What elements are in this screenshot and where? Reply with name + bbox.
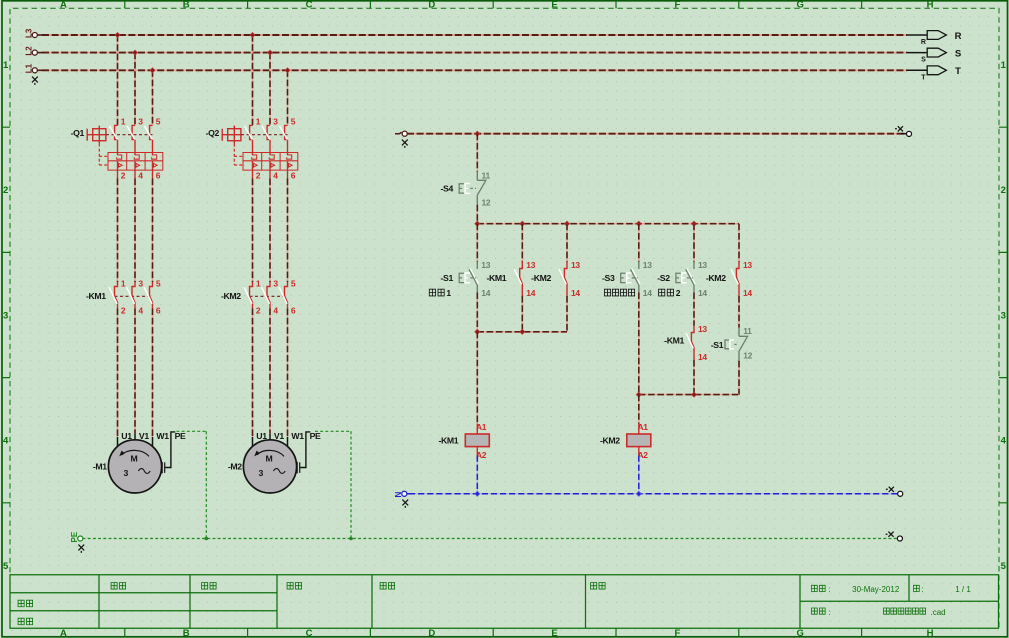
svg-text:14: 14 — [481, 288, 490, 298]
svg-text:6: 6 — [156, 170, 161, 180]
svg-text:13: 13 — [481, 260, 490, 270]
svg-text:4: 4 — [138, 170, 143, 180]
svg-text:T: T — [955, 66, 961, 77]
svg-text:-S1: -S1 — [441, 273, 454, 283]
svg-text:F: F — [674, 0, 680, 10]
svg-text:H: H — [927, 628, 934, 638]
svg-text:1: 1 — [256, 116, 261, 126]
svg-text:13: 13 — [526, 260, 535, 270]
svg-text::: : — [829, 608, 831, 617]
svg-text:W1: W1 — [291, 431, 304, 441]
svg-text:2: 2 — [121, 170, 126, 180]
svg-text:2: 2 — [676, 288, 681, 298]
svg-text:5: 5 — [156, 278, 161, 288]
svg-text:3: 3 — [123, 468, 128, 478]
svg-text:3: 3 — [138, 278, 143, 288]
svg-text:11: 11 — [482, 170, 491, 180]
svg-text:PE: PE — [175, 431, 186, 441]
svg-text:-S2: -S2 — [657, 273, 670, 283]
svg-text:11: 11 — [743, 326, 752, 336]
svg-text:4: 4 — [138, 306, 143, 316]
svg-text:-KM2: -KM2 — [531, 273, 551, 283]
svg-text:14: 14 — [571, 288, 580, 298]
svg-text:PE: PE — [70, 531, 79, 542]
svg-text:14: 14 — [743, 288, 752, 298]
svg-text:3: 3 — [1001, 310, 1006, 321]
svg-text:1 / 1: 1 / 1 — [955, 585, 971, 594]
svg-text:14: 14 — [698, 352, 707, 362]
svg-text:-M1: -M1 — [93, 462, 107, 472]
svg-text:4: 4 — [3, 436, 9, 447]
svg-text:5: 5 — [291, 278, 296, 288]
svg-text:3: 3 — [273, 116, 278, 126]
svg-text:5: 5 — [1001, 561, 1007, 572]
svg-text:PE: PE — [310, 431, 321, 441]
svg-text:13: 13 — [571, 260, 580, 270]
svg-text:12: 12 — [482, 198, 491, 208]
svg-text:-Q1: -Q1 — [71, 128, 85, 138]
svg-text:-KM1: -KM1 — [486, 273, 506, 283]
svg-text:3: 3 — [138, 116, 143, 126]
svg-text:A1: A1 — [637, 422, 648, 432]
svg-text:-KM1: -KM1 — [664, 336, 684, 346]
svg-text:5: 5 — [156, 116, 161, 126]
svg-text:D: D — [428, 628, 435, 638]
svg-text:-S4: -S4 — [441, 183, 454, 193]
svg-text:-KM2: -KM2 — [600, 435, 620, 445]
svg-text:30-May-2012: 30-May-2012 — [852, 585, 900, 594]
svg-text:4: 4 — [1001, 436, 1007, 447]
svg-text:6: 6 — [291, 306, 296, 316]
svg-text:13: 13 — [743, 260, 752, 270]
svg-text:N: N — [394, 492, 403, 498]
svg-text:B: B — [183, 628, 190, 638]
svg-text:U1: U1 — [256, 431, 267, 441]
svg-text:1: 1 — [3, 60, 9, 71]
svg-text:-KM2: -KM2 — [221, 291, 241, 301]
svg-text:13: 13 — [698, 260, 707, 270]
svg-text:3: 3 — [3, 310, 8, 321]
svg-text:-KM2: -KM2 — [706, 273, 726, 283]
svg-text:13: 13 — [643, 260, 652, 270]
svg-text:A: A — [60, 0, 67, 10]
svg-text:1: 1 — [121, 116, 126, 126]
svg-text:E: E — [551, 628, 557, 638]
svg-text:2: 2 — [121, 306, 126, 316]
svg-text:3: 3 — [273, 278, 278, 288]
svg-text:1: 1 — [121, 278, 126, 288]
svg-text:2: 2 — [256, 306, 261, 316]
svg-text:-Q2: -Q2 — [206, 128, 220, 138]
svg-text:U1: U1 — [121, 431, 132, 441]
svg-text:1: 1 — [256, 278, 261, 288]
svg-text:E: E — [551, 0, 557, 10]
svg-text:A: A — [60, 628, 67, 638]
svg-text:F: F — [674, 628, 680, 638]
svg-text:R: R — [955, 31, 962, 42]
svg-text:2: 2 — [3, 185, 8, 196]
svg-text:M: M — [131, 453, 138, 463]
svg-text:G: G — [797, 628, 804, 638]
svg-text:-M2: -M2 — [228, 462, 242, 472]
svg-text:3: 3 — [258, 468, 263, 478]
svg-text:S: S — [921, 57, 926, 64]
svg-text::: : — [829, 585, 831, 594]
svg-text:-KM1: -KM1 — [86, 291, 106, 301]
svg-text:A1: A1 — [476, 422, 487, 432]
svg-text:.cad: .cad — [931, 608, 946, 617]
svg-text:14: 14 — [643, 288, 652, 298]
svg-text:6: 6 — [156, 306, 161, 316]
svg-text:14: 14 — [526, 288, 535, 298]
svg-text:2: 2 — [1001, 185, 1006, 196]
svg-text:V1: V1 — [274, 431, 284, 441]
svg-text:2: 2 — [256, 170, 261, 180]
svg-text:4: 4 — [273, 170, 278, 180]
svg-text:13: 13 — [698, 324, 707, 334]
svg-text:1: 1 — [446, 288, 451, 298]
svg-text:4: 4 — [273, 306, 278, 316]
svg-text:14: 14 — [698, 288, 707, 298]
svg-text:6: 6 — [291, 170, 296, 180]
svg-text:C: C — [306, 628, 313, 638]
svg-text:W1: W1 — [156, 431, 169, 441]
svg-text:V1: V1 — [139, 431, 149, 441]
svg-text:H: H — [927, 0, 934, 10]
svg-text::: : — [922, 585, 924, 594]
svg-text:12: 12 — [743, 350, 752, 360]
svg-text:D: D — [428, 0, 435, 10]
svg-text:R: R — [921, 39, 926, 46]
svg-text:L2: L2 — [24, 46, 33, 56]
svg-text:T: T — [921, 74, 926, 81]
svg-text:L1: L1 — [24, 63, 33, 73]
svg-text:-S1: -S1 — [711, 340, 724, 350]
svg-text:C: C — [306, 0, 313, 10]
svg-text:-S3: -S3 — [602, 273, 615, 283]
svg-text:5: 5 — [291, 116, 296, 126]
svg-text:1: 1 — [1001, 60, 1007, 71]
svg-text:L3: L3 — [24, 28, 33, 38]
svg-text:G: G — [797, 0, 804, 10]
svg-text:S: S — [955, 48, 961, 59]
svg-text:-KM1: -KM1 — [438, 435, 458, 445]
svg-text:B: B — [183, 0, 190, 10]
svg-text:M: M — [266, 453, 273, 463]
svg-text:5: 5 — [3, 561, 9, 572]
